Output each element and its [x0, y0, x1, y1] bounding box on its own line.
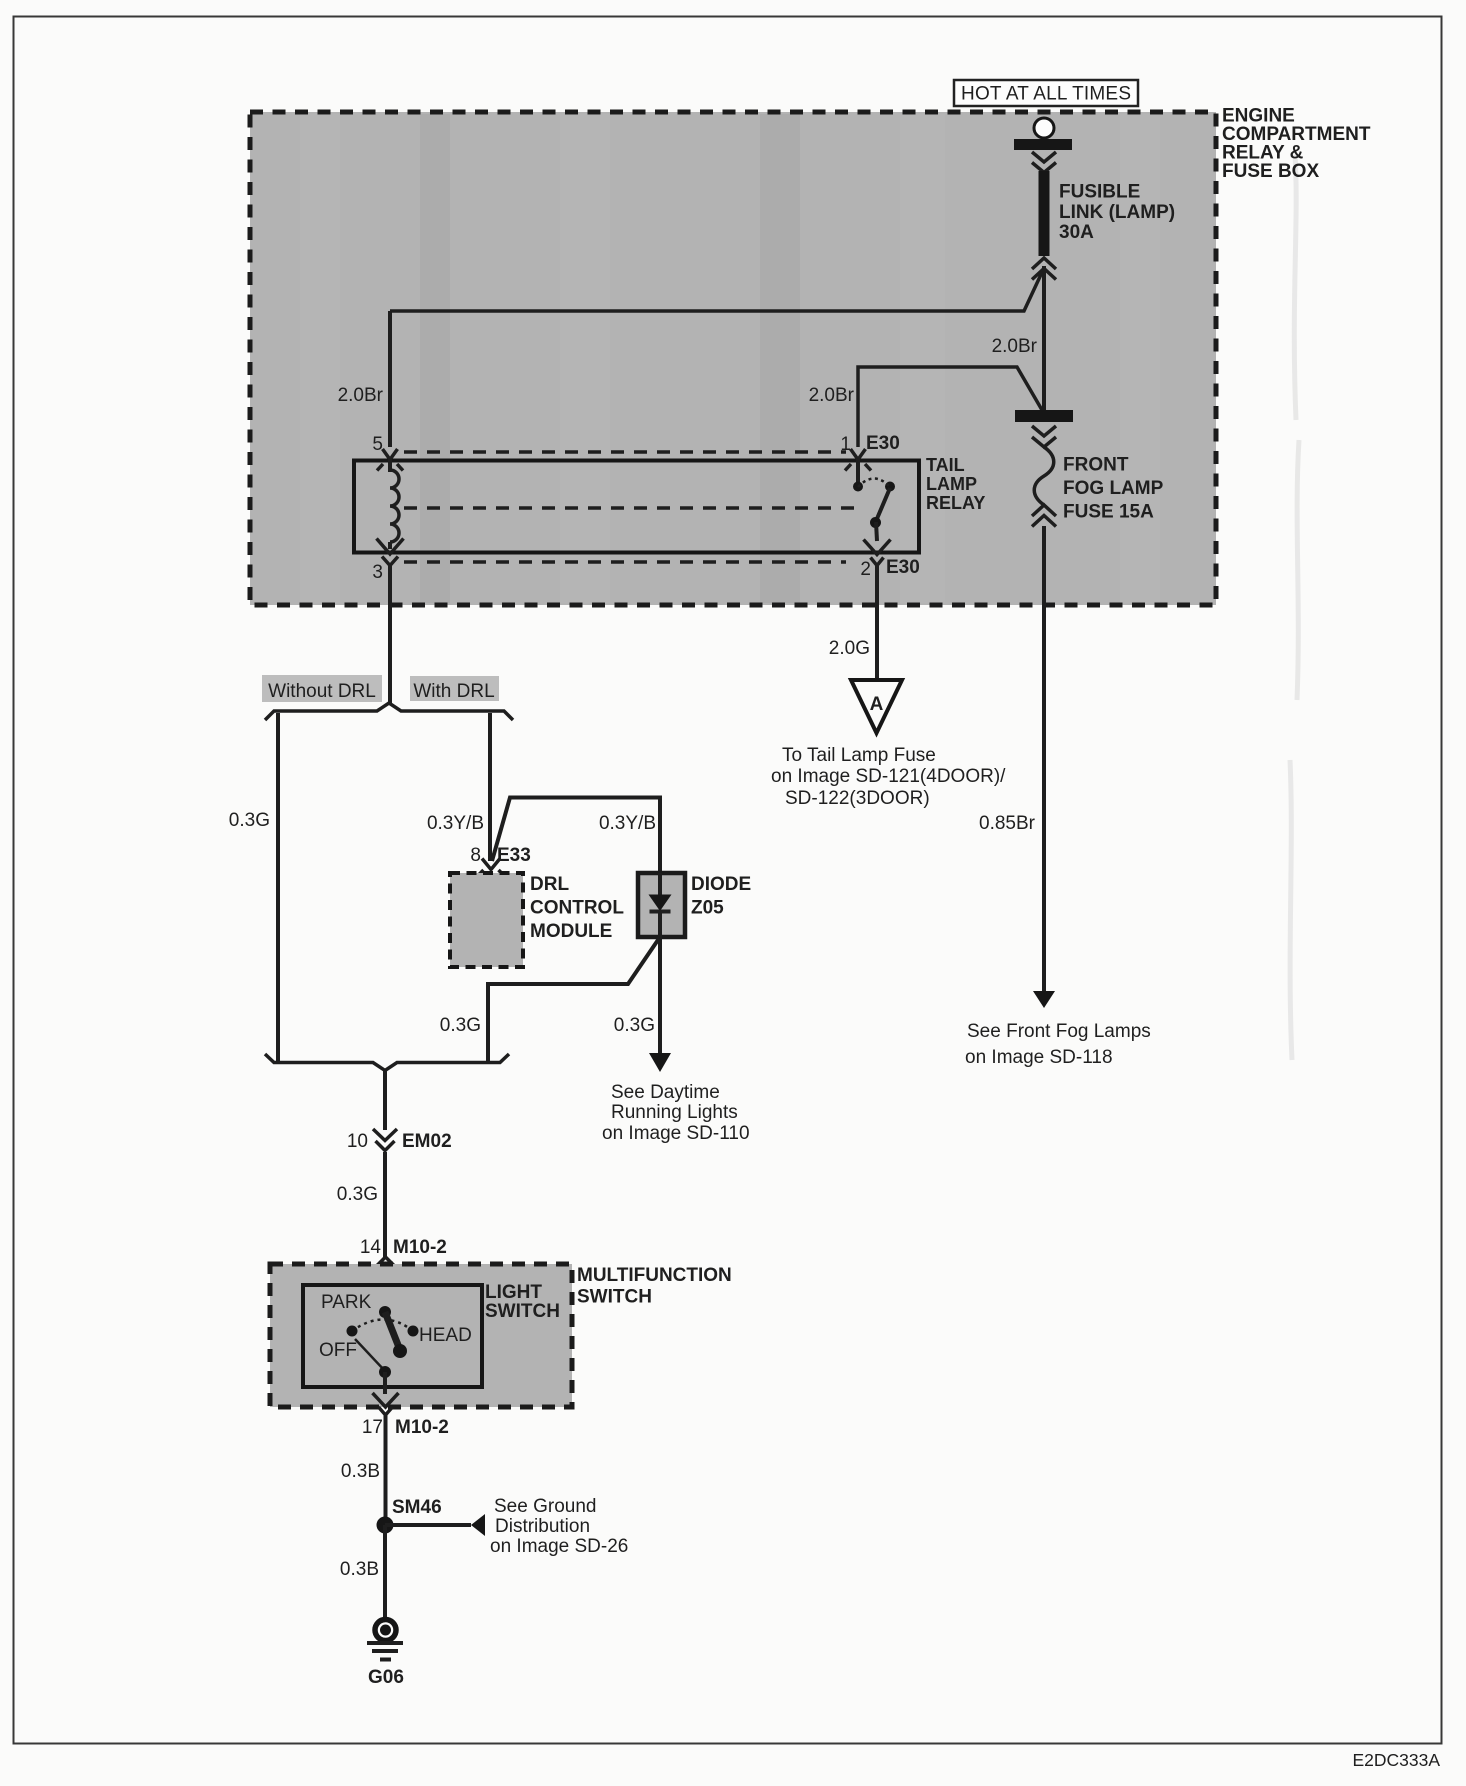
svg-text:HEAD: HEAD — [419, 1325, 472, 1346]
svg-text:FUSE 15A: FUSE 15A — [1063, 502, 1154, 523]
svg-text:Running Lights: Running Lights — [611, 1102, 738, 1123]
svg-text:HOT AT ALL TIMES: HOT AT ALL TIMES — [961, 84, 1131, 105]
svg-text:14: 14 — [360, 1237, 382, 1258]
svg-text:0.3G: 0.3G — [337, 1184, 378, 1205]
svg-text:on Image SD-110: on Image SD-110 — [602, 1123, 750, 1144]
svg-text:See Front Fog Lamps: See Front Fog Lamps — [967, 1021, 1151, 1042]
svg-text:M10-2: M10-2 — [395, 1417, 449, 1438]
svg-text:Distribution: Distribution — [495, 1516, 590, 1537]
svg-text:E30: E30 — [886, 557, 920, 578]
svg-text:Z05: Z05 — [691, 898, 724, 919]
svg-text:LINK (LAMP): LINK (LAMP) — [1059, 202, 1175, 223]
svg-text:M10-2: M10-2 — [393, 1237, 447, 1258]
svg-text:0.3B: 0.3B — [341, 1461, 380, 1482]
svg-text:FUSE BOX: FUSE BOX — [1222, 161, 1319, 182]
svg-text:0.3G: 0.3G — [229, 810, 270, 831]
svg-text:See Ground: See Ground — [494, 1496, 596, 1517]
svg-text:E33: E33 — [497, 845, 531, 866]
svg-text:2.0Br: 2.0Br — [809, 385, 855, 406]
svg-text:MULTIFUNCTION: MULTIFUNCTION — [577, 1265, 732, 1286]
svg-text:0.3B: 0.3B — [340, 1559, 379, 1580]
svg-text:SD-122(3DOOR): SD-122(3DOOR) — [785, 788, 930, 809]
svg-text:on Image SD-121(4DOOR)/: on Image SD-121(4DOOR)/ — [771, 766, 1006, 787]
svg-text:SWITCH: SWITCH — [577, 1287, 652, 1308]
svg-text:SM46: SM46 — [392, 1497, 442, 1518]
svg-text:0.3G: 0.3G — [614, 1015, 655, 1036]
svg-text:E2DC333A: E2DC333A — [1352, 1750, 1440, 1770]
svg-text:30A: 30A — [1059, 222, 1094, 243]
svg-text:A: A — [870, 694, 884, 715]
svg-text:CONTROL: CONTROL — [530, 898, 624, 919]
svg-text:FUSIBLE: FUSIBLE — [1059, 182, 1140, 203]
svg-text:0.3G: 0.3G — [440, 1015, 481, 1036]
svg-text:To Tail Lamp Fuse: To Tail Lamp Fuse — [782, 745, 936, 766]
svg-text:17: 17 — [362, 1417, 383, 1438]
svg-text:OFF: OFF — [319, 1340, 357, 1361]
svg-text:on Image SD-118: on Image SD-118 — [965, 1047, 1113, 1068]
svg-text:2.0G: 2.0G — [829, 638, 870, 659]
svg-text:PARK: PARK — [321, 1292, 372, 1313]
svg-text:2.0Br: 2.0Br — [338, 385, 384, 406]
svg-text:FOG LAMP: FOG LAMP — [1063, 478, 1164, 499]
svg-text:DIODE: DIODE — [691, 874, 751, 895]
svg-text:FRONT: FRONT — [1063, 455, 1129, 476]
svg-text:DRL: DRL — [530, 874, 569, 895]
svg-text:3: 3 — [372, 562, 383, 583]
svg-text:10: 10 — [347, 1131, 368, 1152]
svg-text:1: 1 — [840, 434, 851, 455]
svg-text:2: 2 — [860, 559, 871, 580]
svg-text:With DRL: With DRL — [413, 681, 494, 702]
svg-text:G06: G06 — [368, 1667, 404, 1688]
svg-text:E30: E30 — [866, 433, 900, 454]
svg-text:RELAY: RELAY — [926, 493, 985, 513]
svg-text:SWITCH: SWITCH — [485, 1301, 560, 1322]
svg-text:8: 8 — [470, 845, 481, 866]
svg-text:EM02: EM02 — [402, 1131, 452, 1152]
svg-text:0.3Y/B: 0.3Y/B — [427, 813, 484, 834]
svg-text:MODULE: MODULE — [530, 921, 612, 942]
svg-text:See Daytime: See Daytime — [611, 1082, 720, 1103]
svg-text:5: 5 — [372, 434, 383, 455]
svg-text:LIGHT: LIGHT — [485, 1282, 542, 1303]
svg-text:Without DRL: Without DRL — [268, 681, 376, 702]
svg-text:LAMP: LAMP — [926, 474, 977, 494]
svg-text:TAIL: TAIL — [926, 455, 965, 475]
svg-text:on Image SD-26: on Image SD-26 — [490, 1536, 628, 1557]
svg-text:0.3Y/B: 0.3Y/B — [599, 813, 656, 834]
svg-text:0.85Br: 0.85Br — [979, 813, 1036, 834]
svg-text:2.0Br: 2.0Br — [992, 336, 1038, 357]
